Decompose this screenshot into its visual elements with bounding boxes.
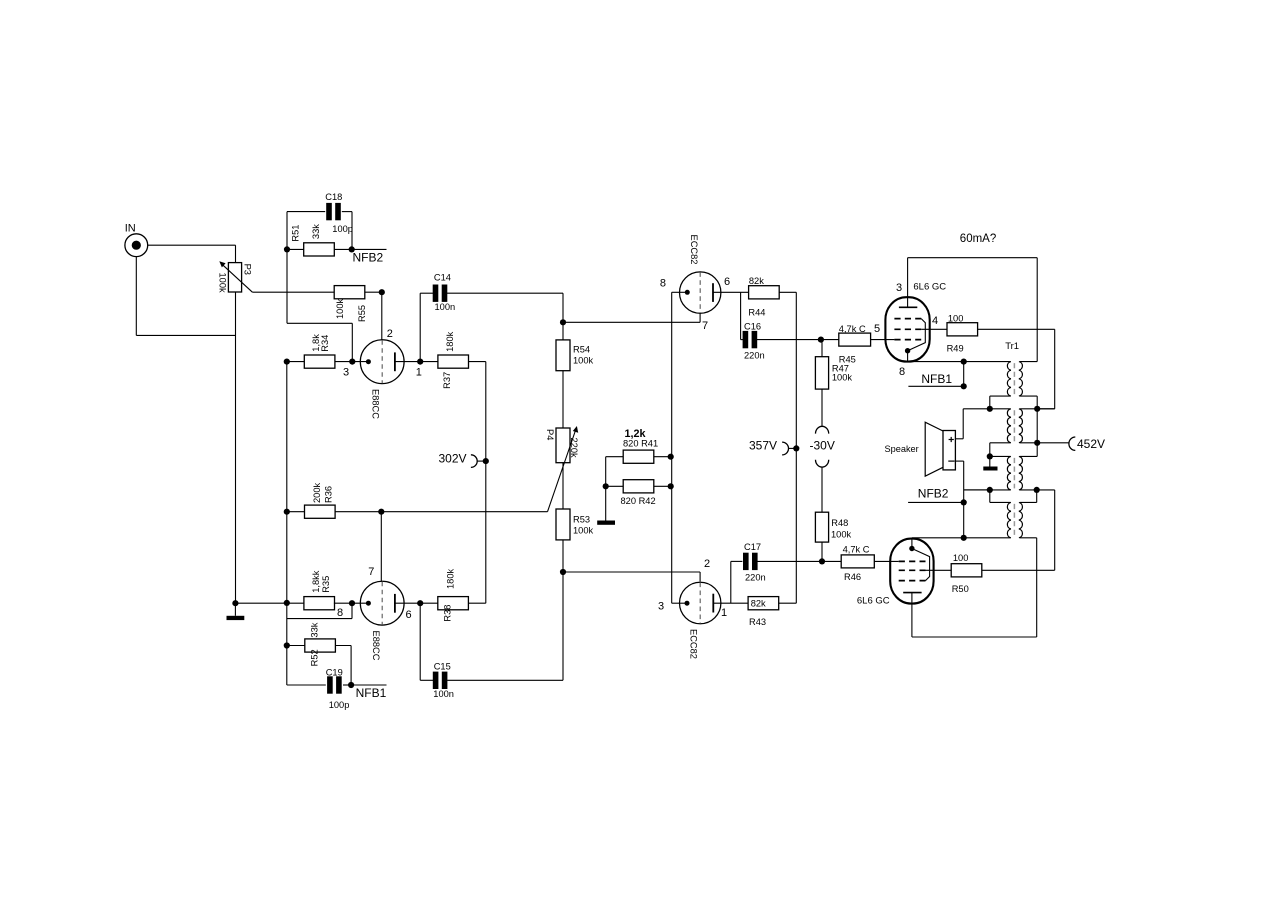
junction [818,337,824,343]
wire [1036,538,1038,637]
wire [926,569,952,571]
wire [562,322,564,340]
wire [351,212,353,250]
resistor R54 100k [556,340,594,371]
svg-text:33k: 33k [310,622,320,637]
svg-text:C17: C17 [744,542,761,552]
svg-text:R48: R48 [831,518,848,528]
junction [987,487,993,493]
wire [287,618,352,620]
wire [562,463,564,509]
svg-text:6: 6 [406,609,412,621]
resistor R35 1,8k [304,570,335,610]
junction [284,600,290,606]
junction [349,246,355,252]
wire [562,371,564,428]
node NFB1 [351,685,387,700]
svg-text:220n: 220n [745,573,766,583]
wire [963,461,965,538]
svg-text:220k: 220k [569,438,579,459]
svg-text:R51: R51 [291,225,301,242]
wire [654,456,671,458]
junction [417,359,423,365]
wire [955,460,963,462]
wire [252,291,334,293]
resistor R38 180k [438,568,469,621]
junction [483,458,489,464]
wire [286,249,288,323]
wire [699,313,701,322]
svg-text:100n: 100n [433,689,454,699]
svg-text:6L6 GC: 6L6 GC [857,595,890,606]
svg-text:6: 6 [724,276,730,288]
node 302V [439,452,486,468]
capacitor C17 220n [743,542,766,583]
wire [1020,361,1037,363]
wire [757,560,822,562]
wire [871,339,895,341]
wire [334,248,351,250]
wire [287,211,325,213]
speaker [885,422,956,476]
junction [987,453,993,459]
svg-text:NFB2: NFB2 [353,250,384,264]
svg-text:NFB1: NFB1 [356,686,387,700]
wire [713,602,748,604]
svg-text:100: 100 [948,313,964,323]
capacitor C18 100p [325,192,353,234]
junction [819,558,825,564]
wire [821,339,822,341]
wire [779,602,796,604]
wire [989,490,991,503]
ground [983,456,997,470]
junction [378,509,384,515]
svg-text:R54: R54 [573,345,590,355]
wire [1036,258,1038,362]
svg-text:100k: 100k [831,530,852,540]
resistor R47 100k [815,340,852,390]
wire [287,361,305,363]
ground [597,486,615,525]
junction [284,246,290,252]
wire [334,602,352,604]
svg-text:3: 3 [343,367,349,379]
wire [989,396,991,409]
svg-text:8: 8 [899,366,905,378]
connector -30V [810,389,835,512]
resistor R51 33k [291,224,335,256]
wire [286,362,288,685]
svg-text:4: 4 [932,315,938,327]
wire [1037,408,1055,410]
wire [740,292,742,339]
svg-text:P4: P4 [545,429,555,440]
wire [990,442,1011,444]
junction [1034,440,1040,446]
wire [562,293,564,322]
svg-text:2: 2 [704,558,710,570]
wire [731,560,743,562]
svg-text:100n: 100n [435,302,456,312]
wire [978,328,1055,330]
wire [351,603,353,618]
resistor R36 200k [305,482,336,518]
wire [605,457,607,487]
junction [379,289,385,295]
tube V5 6L6 GC (upper) [885,258,946,362]
junction [349,600,355,606]
svg-text:E88CC: E88CC [371,389,381,419]
junction [417,600,423,606]
wire [287,511,304,513]
svg-text:R50: R50 [952,584,969,594]
junction [1034,487,1040,493]
svg-text:3: 3 [658,601,664,613]
wire [1020,501,1037,503]
svg-text:100: 100 [953,553,969,563]
junction [560,319,566,325]
svg-text:200k: 200k [312,482,322,503]
wire [989,443,991,457]
junction [284,642,290,648]
wire [381,292,383,340]
wire [287,684,326,686]
wire [654,485,671,487]
svg-text:NFB1: NFB1 [921,372,952,386]
svg-text:R34: R34 [320,335,330,352]
svg-text:2: 2 [387,328,393,340]
junction [603,483,609,489]
wire [562,572,564,680]
wire [874,560,898,562]
svg-text:33k: 33k [311,224,321,239]
svg-text:4,7k C: 4,7k C [839,324,866,334]
wire [235,602,304,604]
svg-text:R46: R46 [844,572,861,582]
resistor R37 180k [438,331,469,389]
wire [352,361,368,363]
wire [1020,442,1037,444]
node NFB2 [908,487,964,503]
wire [365,291,382,293]
svg-text:100k: 100k [832,373,853,383]
wire [287,248,304,250]
wire [1020,408,1055,410]
capacitor C15 100n [433,662,454,700]
wire [1020,455,1037,457]
wire [380,512,382,582]
wire [908,361,1011,363]
wire [990,501,1011,503]
junction [349,359,355,365]
wire [381,511,547,513]
wire [964,489,1011,491]
svg-text:82k: 82k [749,276,764,286]
wire [921,328,947,330]
wire [419,603,421,680]
wire [468,602,485,604]
svg-text:Speaker: Speaker [885,444,919,454]
junction [668,454,674,460]
wire [741,339,743,341]
wire [342,211,352,213]
junction [560,569,566,575]
svg-text:7: 7 [368,566,374,578]
svg-text:100p: 100p [329,700,350,710]
wire [955,438,963,440]
tube V6 6L6 GC (lower) [857,538,934,637]
svg-text:IN: IN [125,223,136,235]
wire [395,602,438,604]
wire [671,292,673,603]
svg-text:452V: 452V [1077,437,1105,451]
svg-text:R35: R35 [321,576,331,593]
svg-text:R49: R49 [947,344,964,354]
resistor R44 82k [748,276,779,318]
node 452V [1037,437,1105,451]
resistor R41 820 [623,428,658,463]
svg-text:C15: C15 [434,662,451,672]
junction [961,359,967,365]
resistor R43 82k [748,597,779,627]
svg-text:1: 1 [416,367,422,379]
svg-text:100k: 100k [218,273,228,294]
wire [821,339,839,341]
wire [135,257,137,336]
capacitor C19 100p [326,667,350,710]
node NFB2 [352,249,387,264]
svg-text:302V: 302V [439,452,467,466]
capacitor C14 100n [433,272,455,312]
potentiometer P4 220k [545,426,579,512]
wire [287,322,352,324]
tube V2 E88CC (lower) [360,581,404,660]
svg-text:R37: R37 [442,372,452,389]
wire [286,212,288,250]
wire [963,408,1010,410]
svg-text:60mA?: 60mA? [960,233,996,245]
capacitor C16 220n [743,322,765,361]
tube V3 ECC82 (upper) [680,235,721,314]
tube V4 ECC82 (lower) [680,582,721,659]
wire [395,361,438,363]
svg-text:220n: 220n [744,351,765,361]
wire [1020,537,1037,539]
wire [912,636,1037,638]
svg-text:820 R42: 820 R42 [621,496,656,506]
svg-text:C18: C18 [325,192,342,202]
wire [1036,396,1038,409]
svg-text:R38: R38 [443,605,453,622]
resistor R46 4,7k C [841,545,874,583]
wire [148,244,236,246]
wire [1036,490,1038,503]
svg-text:R53: R53 [573,515,590,525]
junction [1034,406,1040,412]
junction [284,359,290,365]
svg-text:R52: R52 [310,649,320,666]
wire [469,361,486,363]
wire [235,292,237,603]
wire [982,569,1055,571]
svg-text:NFB2: NFB2 [918,487,949,501]
svg-text:Tr1: Tr1 [1005,341,1019,352]
svg-text:R36: R36 [324,486,334,503]
svg-text:C16: C16 [744,322,761,332]
wire [964,489,990,491]
svg-text:180k: 180k [445,331,455,352]
svg-text:P3: P3 [243,264,253,275]
svg-text:8: 8 [337,607,343,619]
wire [821,542,823,561]
svg-text:3: 3 [896,282,902,294]
svg-text:-30V: -30V [810,438,835,452]
input jack IN [125,223,148,257]
wire [1036,409,1038,443]
resistor R53 100k [556,509,594,540]
wire [343,684,351,686]
wire [730,561,732,603]
svg-text:R43: R43 [749,617,766,627]
wire [350,646,352,686]
svg-text:180k: 180k [446,568,456,589]
junction [232,600,238,606]
wire [1036,443,1038,457]
svg-text:7: 7 [702,320,708,332]
wire [822,560,841,562]
svg-text:82k: 82k [751,599,766,609]
junction [961,499,967,505]
svg-text:100k: 100k [335,298,345,319]
wire [352,602,369,604]
resistor R49 100 [947,313,978,353]
junction [961,535,967,541]
wire [335,511,381,513]
wire [447,292,563,294]
wire [606,456,624,458]
node NFB1 [908,362,963,387]
wire [1020,395,1037,397]
resistor R45 4,7k C [839,324,871,365]
svg-text:100k: 100k [573,526,594,536]
svg-text:C14: C14 [434,272,451,282]
svg-text:820 R41: 820 R41 [623,438,658,448]
svg-text:R44: R44 [748,308,765,318]
wire [420,679,433,681]
svg-text:357V: 357V [749,438,777,452]
wire [912,537,1011,539]
junction [961,383,967,389]
resistor R34 1,8k [304,334,335,368]
junction [793,445,799,451]
svg-text:ECC82: ECC82 [689,235,699,265]
wire [795,292,797,603]
svg-text:ECC82: ECC82 [689,629,699,659]
wire [990,455,1011,457]
node 357V [749,438,796,455]
wire [779,291,796,293]
wire [447,679,563,681]
wire [757,339,821,341]
svg-text:100k: 100k [573,356,594,366]
wire [672,602,687,604]
junction [284,509,290,515]
wire [1020,489,1055,491]
svg-text:4,7k C: 4,7k C [843,545,870,555]
wire [136,334,235,336]
svg-text:1: 1 [721,607,727,619]
junction [348,682,354,688]
svg-text:E88CC: E88CC [371,631,381,661]
wire [235,245,237,262]
wire [485,362,487,604]
wire [563,321,700,323]
wire [420,292,433,294]
resistor R52 33k [305,622,336,666]
wire [287,645,305,647]
svg-text:6L6 GC: 6L6 GC [913,282,946,293]
wire [1054,490,1056,570]
wire [606,485,624,487]
wire [563,571,700,573]
svg-text:R55: R55 [357,305,367,322]
wire [351,323,353,361]
wire [562,540,564,572]
resistor R42 820 [621,480,656,507]
svg-text:1,8kk: 1,8kk [311,570,321,593]
junction [668,483,674,489]
wire [335,645,351,647]
ground [227,603,245,620]
transformer Tr1 [1005,341,1022,538]
resistor R48 100k [815,512,851,542]
resistor R55 100k [334,286,367,322]
wire [335,361,353,363]
wire [699,572,701,582]
svg-text:8: 8 [660,278,666,290]
tube V1 E88CC (upper) [360,340,404,419]
wire [990,395,1011,397]
svg-text:C19: C19 [326,667,343,677]
wire [908,257,1038,259]
potentiometer P3 100k [218,261,253,293]
svg-text:5: 5 [874,323,880,335]
wire [1054,329,1056,409]
resistor R50 100 [951,553,982,594]
wire [419,293,421,361]
wire [962,409,964,439]
junction [987,406,993,412]
svg-text:100p: 100p [332,224,353,234]
wire [672,291,688,293]
wire [713,291,748,293]
